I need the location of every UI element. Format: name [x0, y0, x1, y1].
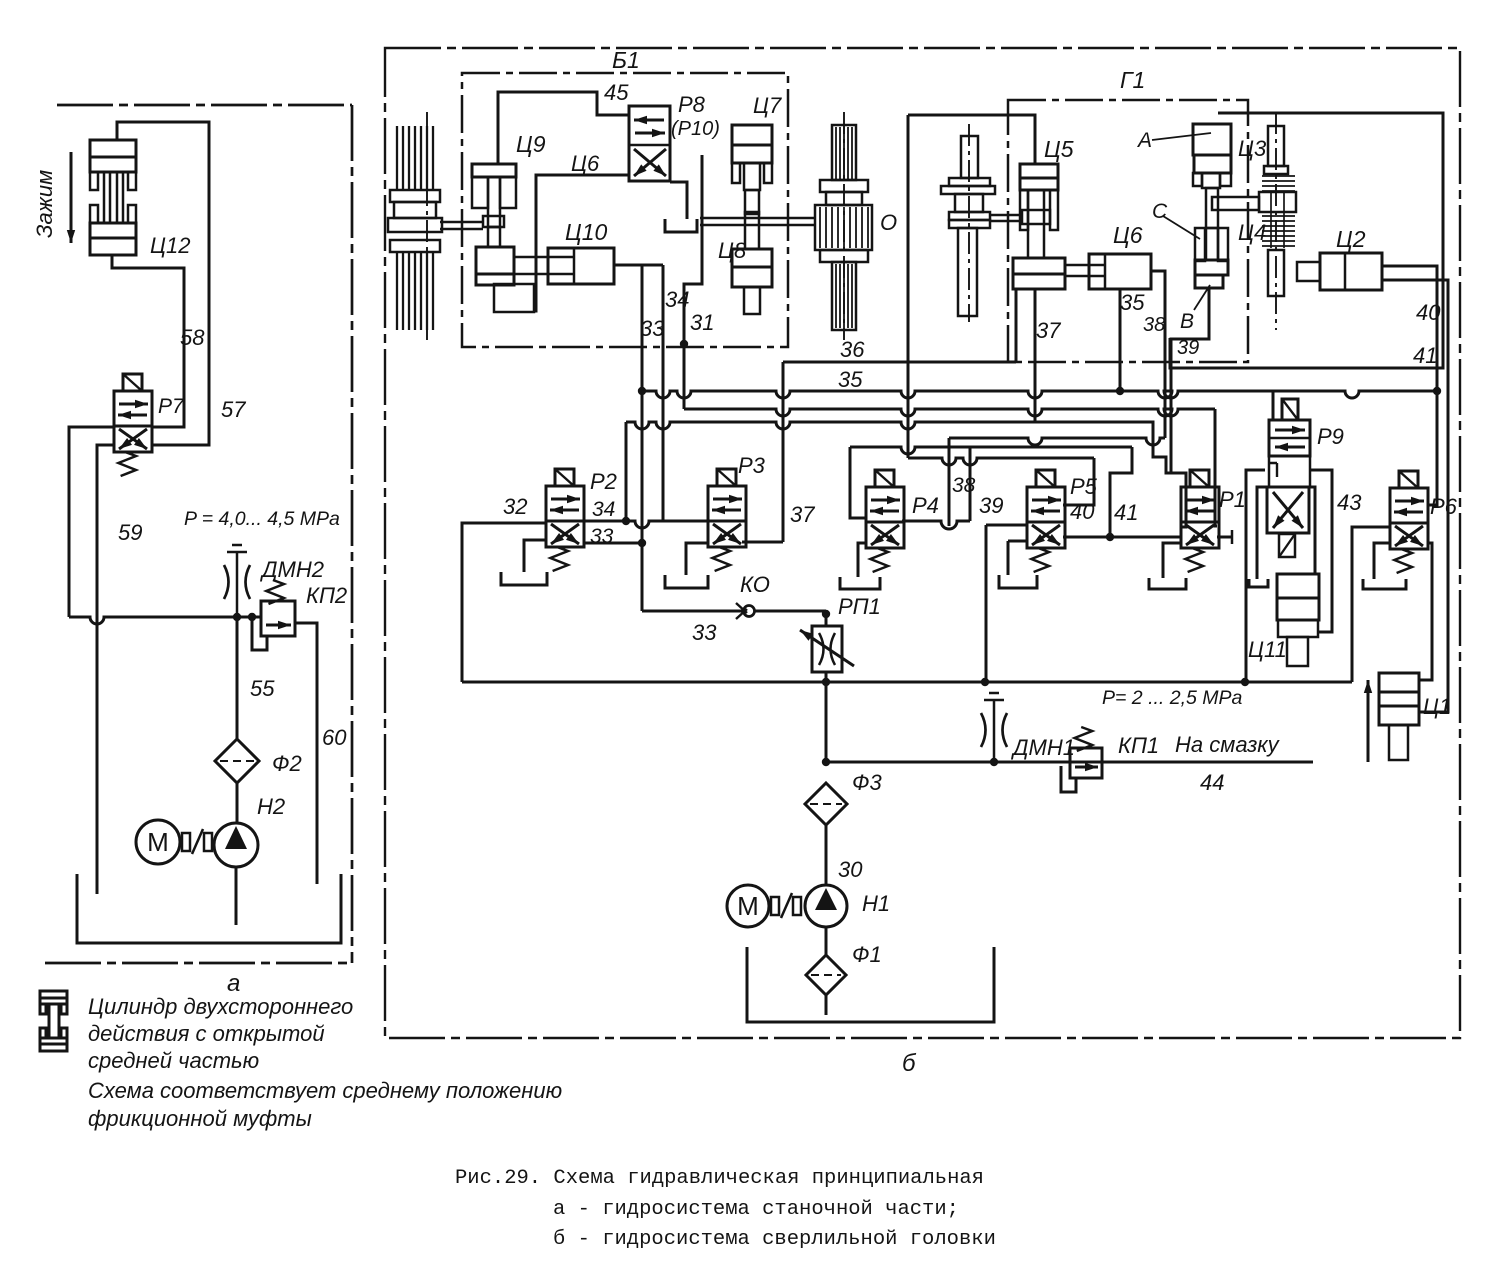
relief valve КП1 — [1070, 748, 1102, 778]
svg-text:37: 37 — [790, 502, 815, 527]
wire РП1 to КО line — [825, 611, 828, 626]
wire 45 (Ц9 top to Р8) — [498, 92, 629, 164]
svg-text:43: 43 — [1337, 490, 1362, 515]
wire Р6 right to Ц1 — [1419, 543, 1432, 680]
svg-text:Ц7: Ц7 — [753, 93, 782, 118]
svg-text:Р3: Р3 — [738, 453, 766, 478]
cylinder Ц1 — [1379, 673, 1419, 692]
svg-text:40: 40 — [1070, 499, 1095, 524]
svg-text:33: 33 — [640, 316, 665, 341]
svg-text:Р8: Р8 — [678, 92, 706, 117]
svg-text:58: 58 — [180, 325, 205, 350]
svg-text:37: 37 — [1036, 318, 1061, 343]
svg-text:средней частью: средней частью — [88, 1048, 259, 1073]
motor M (left unit) — [136, 820, 180, 864]
bus A line 35 — [642, 391, 1437, 398]
pump Н1 — [805, 885, 847, 927]
wire 39 (Ц4 bottom to Р1) — [1171, 288, 1209, 473]
check valve КО — [744, 606, 755, 617]
wire pump Н2 suction — [235, 868, 238, 925]
svg-text:32: 32 — [503, 494, 527, 519]
svg-text:31: 31 — [690, 310, 714, 335]
valve Р9 — [1269, 420, 1310, 456]
cylinder Ц5 — [1020, 164, 1058, 178]
svg-text:Р7: Р7 — [158, 395, 185, 418]
wire 59 (P7 left port down to pump line) — [69, 427, 114, 617]
pressure gauge ДМН1 — [984, 699, 1004, 702]
bus 36 line y458 — [908, 458, 1094, 465]
wire РП1 down — [825, 672, 828, 762]
wire lubrication line 44 — [826, 761, 1313, 764]
wire 39 feed to Р5 — [986, 524, 1027, 527]
relief valve КП2 — [261, 601, 295, 636]
clutch shaft (machine part, right) — [961, 136, 978, 178]
wire 34 (Ц10 down to Р2-Р3 line) — [662, 265, 665, 521]
node ДМН1 junction — [990, 758, 998, 766]
svg-text:M: M — [147, 827, 169, 857]
wire Ц6-net (Р8 to Ц9 foot) — [534, 175, 629, 311]
valve Р6 — [1390, 488, 1428, 549]
svg-text:39: 39 — [1177, 337, 1199, 359]
cylinder Ц12 — [90, 140, 136, 157]
frame spindle head (solid box) — [1170, 113, 1443, 368]
svg-text:Р9: Р9 — [1317, 424, 1344, 449]
gear rack shaft — [1268, 126, 1284, 166]
valve P7 — [114, 391, 152, 452]
wire clutch2 link to Ц5 — [990, 214, 1020, 217]
wire 38 (Ц6 right down) — [1151, 271, 1165, 438]
pump Н2 — [214, 823, 258, 867]
drain bracket Р9 — [1249, 579, 1268, 587]
wire bus C staircase to Р1 left — [1035, 422, 1186, 527]
splined shaft О — [832, 125, 856, 180]
svg-text:А: А — [1136, 129, 1152, 152]
stub Р1 right — [1217, 536, 1232, 539]
node x626 on port line — [622, 517, 630, 525]
wire 41 (Ц2 to Ц1) — [1382, 280, 1448, 712]
wire 55 (to filter Ф2) — [236, 617, 239, 739]
svg-text:Ф2: Ф2 — [272, 751, 302, 776]
drain bracket Р1 — [1163, 543, 1181, 578]
wire bus B to Р1 right — [1215, 409, 1217, 526]
wire 57 (Ц12 top to P7 bottom-right) — [117, 122, 209, 445]
node 31 on Б1 border — [680, 340, 688, 348]
node bus-x826 — [822, 678, 830, 686]
svg-text:КП2: КП2 — [306, 583, 347, 608]
node РП1 top — [822, 610, 830, 618]
svg-text:фрикционной муфты: фрикционной муфты — [88, 1106, 312, 1131]
wire Ц10 port line — [614, 264, 663, 267]
svg-text:Р1: Р1 — [1219, 487, 1246, 512]
svg-text:59: 59 — [118, 520, 142, 545]
svg-text:Рис.29. Схема гидравлическая п: Рис.29. Схема гидравлическая принципиаль… — [455, 1167, 984, 1190]
wire Р9 feed from bus A — [1272, 391, 1275, 420]
svg-text:40: 40 — [1416, 300, 1441, 325]
valve Р1 — [1181, 487, 1219, 548]
wire P7 drain to tank — [97, 445, 114, 894]
cylinder Ц9 — [472, 164, 516, 177]
wire shaft link Ц7-Ц8 to gear О — [700, 217, 815, 220]
legend icon: double-acting cylinder symbol — [40, 991, 67, 998]
cylinder Ц6 — [1089, 254, 1151, 289]
svg-text:Н1: Н1 — [862, 891, 890, 916]
wire bus A to Р6 — [1428, 391, 1437, 505]
wire 33 horizontal (to КО and РП1) — [642, 610, 826, 613]
svg-text:P= 2 ... 2,5 МРа: P= 2 ... 2,5 МРа — [1102, 687, 1243, 709]
node bus-x1245 — [1241, 678, 1249, 686]
node 40 on busA — [1433, 387, 1441, 395]
svg-text:Ц12: Ц12 — [150, 233, 190, 258]
wire Р2 bottom to 33 — [584, 542, 642, 545]
cylinder Ц4 — [1195, 228, 1205, 261]
wire Ф2 to pump Н2 — [236, 783, 239, 822]
svg-text:(Р10): (Р10) — [671, 118, 720, 140]
wire Ф1 tail — [825, 995, 828, 1015]
motor M (right unit) — [727, 885, 769, 927]
wire Р2-Р3 ports line 34 — [585, 521, 708, 528]
valve Р8 (Р10) — [629, 106, 670, 181]
wire 39 drop — [985, 525, 988, 682]
bus H5 line 38 — [949, 438, 1165, 445]
node bus-x985 — [981, 678, 989, 686]
frame around Р9 (pilot lines) — [1246, 470, 1265, 682]
wire 33 (Ц10 to КО line) — [641, 265, 644, 611]
svg-text:41: 41 — [1114, 500, 1138, 525]
drain bracket Р5 — [1008, 540, 1027, 543]
svg-text:35: 35 — [838, 367, 863, 392]
svg-text:На смазку: На смазку — [1175, 732, 1281, 757]
filter Ф3 — [805, 783, 847, 825]
wire Р6 left to bottom bus — [1352, 527, 1390, 682]
svg-text:Ф3: Ф3 — [852, 770, 882, 795]
frame Б1 (drill head group box) — [462, 73, 788, 347]
wire 58 (Ц12 bottom to P7 top-right) — [112, 255, 184, 427]
node junction at ДМН2 — [233, 613, 241, 621]
svg-text:30: 30 — [838, 857, 863, 882]
drain bracket Р4 — [858, 543, 866, 577]
svg-text:Ц1: Ц1 — [1423, 694, 1451, 719]
cylinder Ц11 — [1277, 574, 1319, 598]
valve Р5 — [1027, 487, 1065, 548]
svg-text:Ц4: Ц4 — [1238, 220, 1266, 245]
wire 41 left drop to Р4 — [850, 447, 866, 518]
wire Р8 drain — [670, 182, 687, 219]
bus B — [684, 409, 1215, 416]
node 41 junction — [1106, 533, 1114, 541]
svg-text:б: б — [902, 1050, 917, 1077]
svg-text:б - гидросистема сверлильной г: б - гидросистема сверлильной головки — [553, 1228, 996, 1251]
bus C (x626 to staircase Р1) — [626, 422, 1035, 429]
svg-text:ДМН2: ДМН2 — [259, 557, 324, 582]
svg-text:44: 44 — [1200, 770, 1224, 795]
svg-text:КП1: КП1 — [1118, 733, 1159, 758]
svg-text:33: 33 — [590, 525, 614, 548]
node junction at КП2 — [248, 613, 256, 621]
svg-text:Цилиндр двухстороннего: Цилиндр двухстороннего — [88, 994, 353, 1019]
svg-text:Г1: Г1 — [1120, 67, 1145, 93]
wire 40 (Ц2 to bus A) — [1382, 266, 1437, 391]
frame Г1 (spindle group box) — [1008, 100, 1248, 362]
wire 37 (Ц5 bottom riser) — [1034, 289, 1037, 422]
svg-text:В: В — [1180, 310, 1194, 333]
svg-text:Р5: Р5 — [1070, 474, 1098, 499]
svg-text:Ф1: Ф1 — [852, 942, 882, 967]
friction clutch (machine part, left) — [396, 126, 398, 190]
tank of section a — [77, 874, 341, 943]
wire clutch shaft to Ц9 — [440, 221, 483, 224]
wire 41 staircase — [1110, 447, 1132, 537]
wire 36 top to Ц5 — [908, 115, 1035, 164]
svg-text:55: 55 — [250, 676, 275, 701]
wire link Ц3 rod to rack — [1212, 197, 1259, 210]
svg-text:Ц9: Ц9 — [516, 131, 546, 157]
frame of hydraulic section a (left box border) — [57, 104, 352, 107]
svg-text:действия с открытой: действия с открытой — [88, 1021, 325, 1046]
svg-text:33: 33 — [692, 620, 717, 645]
coupling motor-pump (a) — [182, 833, 190, 851]
wire 35 (Ц6 bottom to bus A) — [1119, 289, 1122, 391]
svg-text:С: С — [1152, 200, 1168, 223]
svg-text:а: а — [227, 970, 240, 997]
svg-text:О: О — [880, 210, 897, 235]
valve Р4 — [866, 487, 904, 548]
coupling motor-pump (б) — [771, 897, 779, 915]
wire 40 staircase (Р5 right up) — [1063, 458, 1094, 505]
svg-text:Ц5: Ц5 — [1044, 136, 1074, 162]
svg-text:Ц6: Ц6 — [571, 151, 600, 176]
node bus A x642 — [638, 387, 646, 395]
svg-text:Зажим: Зажим — [32, 170, 57, 238]
node x826-762 — [822, 758, 830, 766]
cylinder Ц7 — [732, 125, 772, 145]
wire 36 (horizontal to Ц5 bottom) — [783, 361, 1016, 364]
filter Ф2 — [215, 739, 259, 783]
wire pump pressure line (horizontal, hops drain) — [69, 617, 261, 624]
svg-text:Ц6: Ц6 — [1113, 222, 1143, 248]
frame of hydraulic section б (big box border) — [385, 48, 1460, 1038]
valve Р2 — [546, 486, 584, 547]
cylinder Ц8 — [745, 212, 759, 249]
svg-text:60: 60 — [322, 725, 347, 750]
wire Р5-Р1 port line — [1063, 536, 1181, 539]
wire Ф3-Н1 — [825, 825, 828, 884]
svg-text:Н2: Н2 — [257, 794, 285, 819]
wire 32 (Р2 left to bottom bus) — [462, 523, 546, 682]
svg-text:Р6: Р6 — [1430, 494, 1458, 519]
svg-text:39: 39 — [979, 493, 1003, 518]
cylinder Ц2 — [1320, 253, 1382, 290]
svg-text:35: 35 — [1120, 290, 1145, 315]
wire 37 (Р3 riser) — [742, 541, 783, 544]
svg-text:Ц8: Ц8 — [718, 238, 747, 263]
drain bracket Р6 — [1374, 543, 1390, 579]
svg-text:36: 36 — [840, 337, 865, 362]
wire 36 vertical x908 — [907, 115, 910, 458]
svg-text:ДМН1: ДМН1 — [1010, 735, 1075, 760]
svg-text:41: 41 — [1413, 343, 1437, 368]
flow regulator РП1 — [812, 626, 842, 672]
svg-text:РП1: РП1 — [838, 594, 881, 619]
bus H7 line 41 — [850, 447, 1132, 454]
svg-text:а - гидросистема станочной час: а - гидросистема станочной части; — [553, 1198, 959, 1221]
drain bracket Р3 — [686, 543, 708, 575]
svg-text:34: 34 — [592, 498, 615, 521]
drain bracket Р2 — [524, 540, 546, 572]
svg-text:34: 34 — [665, 287, 689, 312]
tank of section б — [747, 947, 994, 1022]
arrow at Ц1 — [1367, 680, 1370, 762]
cylinder Ц10 — [548, 248, 614, 284]
valve Р3 — [708, 486, 746, 547]
svg-text:Ц11: Ц11 — [1248, 637, 1287, 662]
wire bottom pressure bus — [462, 681, 1352, 684]
pressure gauge ДМН2 — [227, 551, 247, 554]
wire 60 (КП2 out to tank) — [295, 623, 317, 884]
wire 31 (Р8 right to bus B) — [684, 155, 702, 409]
svg-text:Б1: Б1 — [612, 47, 640, 73]
svg-text:57: 57 — [221, 397, 246, 422]
wire Р4 right line with loop — [902, 521, 970, 529]
wire 38 riser into Р4 line — [948, 438, 951, 526]
wire 34-riser (Р2 port to bus C) — [625, 422, 628, 521]
svg-text:Схема соответствует среднему: Схема соответствует среднему положению — [88, 1078, 562, 1103]
svg-text:M: M — [737, 891, 759, 921]
drain bracket Р8 — [665, 219, 697, 232]
svg-text:45: 45 — [604, 80, 629, 105]
svg-text:Р2: Р2 — [590, 469, 617, 494]
wire Н1 suction — [825, 927, 828, 955]
node 33 junction — [638, 539, 646, 547]
svg-text:Ц3: Ц3 — [1238, 136, 1267, 161]
filter Ф1 — [806, 955, 846, 995]
svg-text:Р4: Р4 — [912, 493, 939, 518]
svg-text:38: 38 — [1143, 314, 1165, 336]
svg-text:P = 4,0... 4,5 МРа: P = 4,0... 4,5 МРа — [184, 508, 340, 530]
svg-text:Ц10: Ц10 — [565, 219, 608, 245]
svg-text:38: 38 — [952, 474, 976, 497]
cylinder Ц3 — [1193, 124, 1231, 155]
svg-text:КО: КО — [740, 572, 770, 597]
svg-text:Ц2: Ц2 — [1336, 226, 1366, 252]
